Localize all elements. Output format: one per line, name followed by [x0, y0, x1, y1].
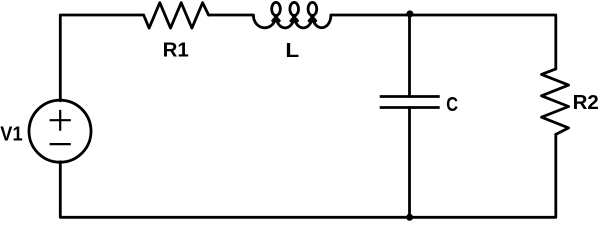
inductor L: [253, 2, 331, 28]
wire middle vertical upper: [408, 13, 411, 97]
wire middle vertical lower: [408, 108, 411, 218]
V1 plus sign: [50, 110, 71, 131]
svg-text:R1: R1: [163, 38, 189, 61]
svg-text:C: C: [446, 93, 458, 116]
wire right vertical lower, bottom wire, left lower corner: [60, 134, 556, 217]
wire top-left with corner down to V1: [60, 15, 143, 101]
node junction dot top: [406, 10, 413, 17]
node junction dot bottom: [406, 214, 413, 221]
svg-text:R2: R2: [573, 91, 599, 114]
svg-text:L: L: [285, 39, 299, 62]
capacitor C bottom plate: [380, 106, 440, 109]
capacitor C top plate: [380, 95, 440, 98]
wire L to top-right corner down to R2: [331, 15, 556, 69]
resistor R1: [144, 3, 209, 28]
wire R1 to L: [209, 14, 254, 17]
V1 minus sign: [50, 143, 71, 145]
svg-text:V1: V1: [0, 123, 22, 146]
voltage source V1 circle: [29, 100, 91, 162]
resistor R2: [542, 69, 569, 134]
